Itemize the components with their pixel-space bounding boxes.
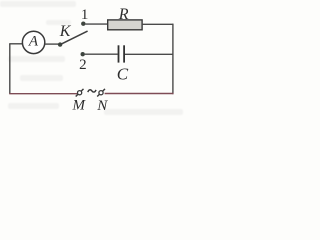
wire: left horizontal to ammeter — [9, 43, 22, 45]
switch K pivot junction — [58, 42, 62, 46]
wire: resistor to right rail — [142, 23, 173, 25]
svg-text:1: 1 — [81, 7, 89, 23]
wire: ammeter to switch pivot — [45, 43, 59, 45]
capacitor C — [119, 45, 125, 62]
svg-text:N: N — [96, 98, 108, 114]
wire: contact 2 to capacitor — [85, 53, 118, 55]
wire: right vertical rail — [172, 24, 174, 95]
svg-text:C: C — [117, 65, 129, 84]
wire: bottom left section (to terminal M) — [9, 93, 77, 95]
terminal N — [97, 89, 105, 97]
resistor R — [108, 20, 142, 30]
wire: capacitor to right rail — [125, 53, 173, 55]
wire: bottom right section (from terminal N) — [105, 93, 174, 95]
svg-text:K: K — [59, 23, 72, 40]
node 1: upper contact dot — [81, 22, 85, 26]
svg-text:2: 2 — [79, 57, 87, 73]
AC source tilde — [88, 90, 96, 92]
svg-text:M: M — [72, 97, 87, 113]
terminal M — [76, 89, 84, 97]
switch K blade — [61, 31, 88, 44]
wire: left vertical rail — [9, 44, 11, 94]
svg-text:A: A — [28, 34, 39, 50]
wire: contact 1 to resistor — [85, 23, 108, 25]
node 2: lower contact dot — [81, 52, 85, 56]
svg-text:R: R — [118, 6, 129, 23]
ammeter A — [22, 31, 44, 53]
